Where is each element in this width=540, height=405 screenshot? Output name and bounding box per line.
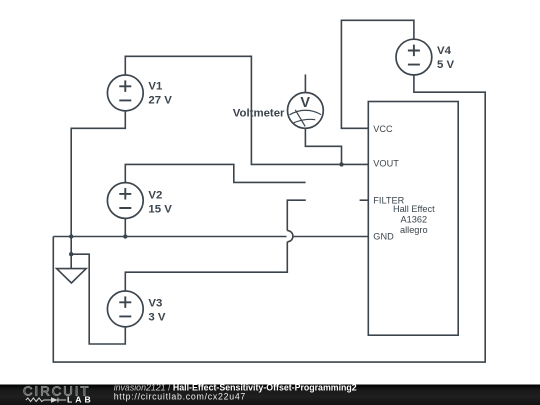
- svg-text:V2: V2: [148, 189, 162, 201]
- svg-text:LAB: LAB: [67, 394, 94, 404]
- svg-text:VCC: VCC: [373, 124, 393, 134]
- svg-text:27 V: 27 V: [148, 94, 172, 106]
- svg-text:5 V: 5 V: [437, 59, 454, 71]
- svg-text:V: V: [300, 95, 310, 111]
- svg-text:V3: V3: [148, 297, 162, 309]
- svg-text:GND: GND: [373, 231, 394, 241]
- svg-text:VOUT: VOUT: [373, 159, 399, 169]
- svg-text:A1362: A1362: [401, 215, 428, 225]
- svg-text:http://circuitlab.com/cx22u47: http://circuitlab.com/cx22u47: [114, 391, 246, 401]
- svg-text:15 V: 15 V: [148, 203, 172, 215]
- svg-text:Voltmeter: Voltmeter: [233, 108, 285, 120]
- svg-text:3 V: 3 V: [148, 311, 165, 323]
- svg-text:V4: V4: [437, 45, 452, 57]
- svg-text:allegro: allegro: [400, 225, 428, 235]
- svg-text:Hall Effect: Hall Effect: [393, 204, 435, 214]
- svg-text:V1: V1: [148, 80, 163, 92]
